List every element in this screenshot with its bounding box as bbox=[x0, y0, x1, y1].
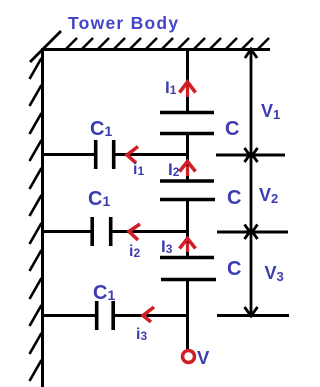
left wall (tower body) bbox=[41, 49, 44, 387]
branch 1 wire from wall bbox=[42, 153, 95, 156]
capacitor C (bottom) bbox=[160, 256, 214, 260]
svg-text:Tower Body: Tower Body bbox=[68, 13, 179, 33]
voltage arrow V1 bbox=[245, 49, 258, 157]
wire C3 bottom to terminal bbox=[186, 279, 189, 349]
capacitor C1 (branch 3) bbox=[95, 301, 99, 330]
voltage arrow V2 bbox=[245, 153, 258, 234]
capacitor C1 (branch 2) bbox=[90, 217, 94, 246]
branch 3 wire from wall bbox=[42, 314, 96, 317]
capacitor C (middle) bbox=[160, 179, 214, 183]
terminal V bbox=[183, 351, 195, 363]
node 2 tick bbox=[217, 231, 288, 234]
svg-text:i2: i2 bbox=[129, 243, 140, 260]
branch 1 wire to node 1 bbox=[114, 153, 187, 156]
current arrow I3 bbox=[180, 239, 196, 253]
wire C2 bottom to node 2 to C3 top plate bbox=[186, 199, 189, 257]
current arrow I2 bbox=[180, 162, 196, 177]
svg-text:C: C bbox=[225, 118, 239, 140]
current arrow i1 bbox=[127, 147, 138, 164]
svg-text:i3: i3 bbox=[136, 326, 147, 343]
svg-text:C: C bbox=[227, 258, 241, 280]
svg-text:i1: i1 bbox=[133, 161, 144, 178]
voltage arrow V3 bbox=[245, 230, 258, 316]
wire C top to node 1 to C2 top plate bbox=[186, 133, 189, 181]
corner hatch bbox=[30, 31, 61, 62]
current arrow I1 bbox=[180, 82, 196, 97]
branch 3 wire to node 3 bbox=[113, 314, 187, 317]
current arrow i2 bbox=[129, 224, 140, 240]
top wall (tower body ground plane) bbox=[41, 48, 270, 51]
wire top wall to C top plate bbox=[186, 50, 189, 112]
branch 2 wire to node 2 bbox=[111, 230, 187, 233]
capacitor C (top) bbox=[160, 111, 214, 115]
current arrow i3 bbox=[143, 307, 154, 322]
node 1 tick bbox=[216, 154, 285, 157]
capacitor C1 (branch 1) bbox=[94, 140, 98, 169]
svg-text:C: C bbox=[227, 187, 241, 209]
left wall hatching bbox=[30, 58, 42, 381]
branch 2 wire from wall bbox=[42, 230, 92, 233]
svg-text:V: V bbox=[197, 347, 210, 368]
node 3 tick bbox=[217, 314, 289, 317]
top wall hatching bbox=[66, 38, 269, 49]
